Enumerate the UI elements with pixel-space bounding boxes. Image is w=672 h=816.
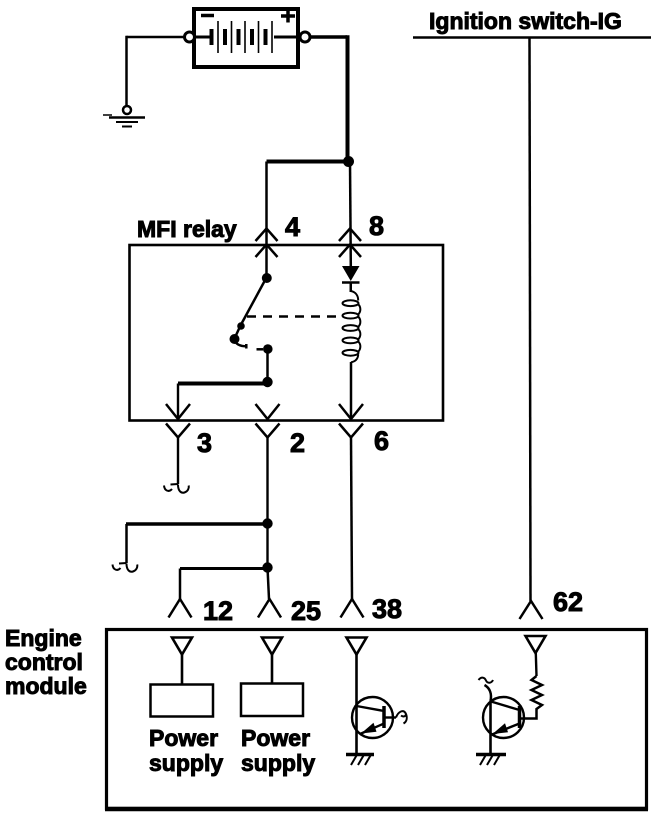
svg-text:8: 8 [369, 211, 384, 241]
svg-text:supply: supply [149, 750, 223, 776]
svg-text:supply: supply [241, 750, 315, 776]
svg-text:MFI relay: MFI relay [137, 216, 237, 242]
svg-text:control: control [5, 649, 83, 675]
svg-text:12: 12 [203, 596, 233, 626]
svg-text:62: 62 [553, 587, 583, 617]
svg-text:Power: Power [149, 725, 218, 751]
svg-text:3: 3 [197, 428, 212, 458]
svg-text:Engine: Engine [5, 625, 82, 651]
svg-text:38: 38 [372, 594, 402, 624]
svg-text:25: 25 [291, 596, 321, 626]
svg-text:module: module [5, 673, 87, 699]
svg-text:6: 6 [374, 426, 389, 456]
svg-text:4: 4 [285, 212, 300, 242]
svg-text:2: 2 [290, 428, 305, 458]
svg-text:Power: Power [241, 725, 310, 751]
svg-text:Ignition switch-IG: Ignition switch-IG [429, 8, 622, 34]
